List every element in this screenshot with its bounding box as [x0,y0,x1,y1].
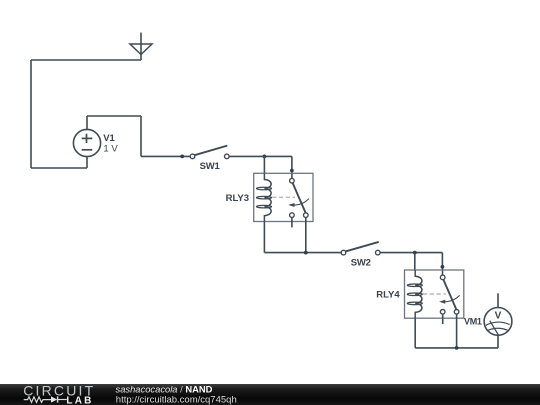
node junction before SW1 [180,155,184,159]
relay RLY3 [254,173,313,227]
wire down to SW1 row [140,116,142,156]
wire to SW1 [141,155,190,157]
wire RLY3 coil top stub [263,156,265,174]
node junction RLY4 switch pin [441,265,445,269]
wire RLY4 coil top stub [414,253,416,271]
svg-text:RLY3: RLY3 [226,193,249,204]
svg-text:sashacocacola / NAND: sashacocacola / NAND [116,384,213,395]
wire V1 top stub [86,116,88,129]
wire V1 top horizontal [87,115,141,117]
svg-text:V: V [495,310,502,321]
switch SW1 [190,146,229,159]
voltage source V1 [73,129,100,156]
switch SW2 [341,242,380,255]
svg-text:LAB: LAB [66,395,93,405]
wire left vertical [30,60,32,168]
svg-text:SW2: SW2 [351,257,371,268]
node junction RLY4 coil tap [413,251,417,255]
svg-text:SW1: SW1 [200,161,221,172]
footer bar [0,384,540,405]
svg-text:1 V: 1 V [103,143,118,154]
svg-text:http://circuitlab.com/cq745qh: http://circuitlab.com/cq745qh [116,395,237,405]
svg-text:V1: V1 [103,133,115,144]
wire VM1 bottom stub [497,335,499,348]
wire RLY3 common pin stub [291,171,293,179]
wire VM1 top stub [497,293,499,307]
node junction RLY4 NO to bottom wire [455,346,459,350]
wire RLY3 coil bottom down [263,222,265,253]
wire down to RLY4 switch pin [441,253,443,267]
wire bottom row to SW2 [264,252,341,254]
wire SW1 to RLY3 [229,155,292,157]
wire bottom row to VM1 [415,347,498,349]
wire top from antenna to left [31,59,141,61]
relay RLY4 [405,270,464,324]
wire bottom to V1 minus [31,167,87,169]
wire RLY3 NO contact down [305,217,307,252]
svg-text:VM1: VM1 [464,316,482,326]
node junction RLY3 coil tap [263,155,267,159]
antenna ANT1 [130,33,152,60]
node junction RLY3 NO to bottom wire [304,251,308,255]
svg-text:RLY4: RLY4 [376,290,400,301]
node junction RLY3 switch pin [290,169,294,173]
wire down to RLY3 switch pin [291,156,293,170]
wire RLY4 NO contact down [456,314,458,348]
logo resistor and diode glyph [24,396,67,402]
wire RLY4 coil bottom down [414,318,416,348]
wire V1 bottom stub [86,157,88,168]
wire SW2 to RLY4 [380,252,442,254]
wire RLY4 common pin stub [442,267,444,275]
voltmeter VM1 [484,308,512,336]
